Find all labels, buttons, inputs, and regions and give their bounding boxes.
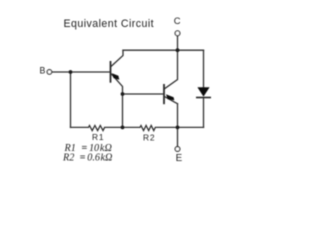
svg-text:R2: R2 [143,132,155,142]
svg-text:E: E [176,153,183,164]
svg-text:B: B [40,66,46,76]
svg-text:R2=0.6kΩ: R2=0.6kΩ [62,153,112,164]
svg-text:Equivalent Circuit: Equivalent Circuit [64,18,155,30]
svg-text:R1: R1 [92,132,104,142]
svg-text:C: C [174,15,181,26]
